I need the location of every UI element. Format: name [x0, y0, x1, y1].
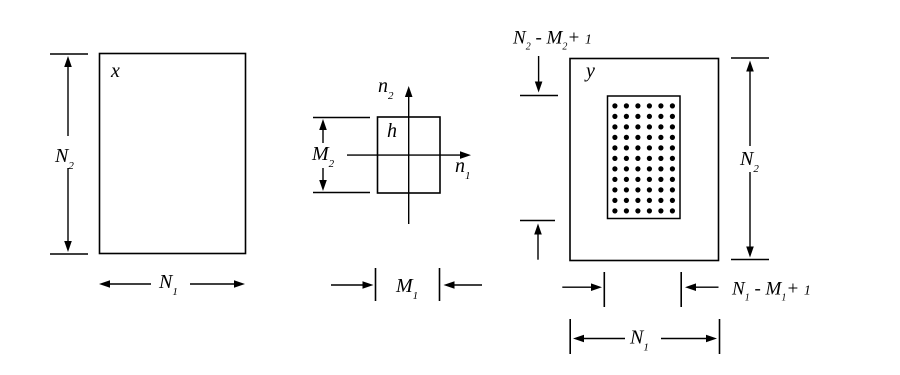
arrow M2 upper segment: [322, 127, 324, 143]
axis n2 vertical: [408, 94, 410, 224]
arrow M1 right (points left): [452, 284, 482, 286]
tick bottom-left N2: [50, 253, 88, 255]
tick bottom M2: [313, 192, 370, 194]
arrow N2 lower segment: [67, 168, 69, 244]
tick M1 left: [375, 268, 377, 301]
tick bottom-left inner: [520, 220, 555, 222]
axis n1 horizontal: [347, 154, 463, 156]
tick bottom N1 right: [719, 319, 721, 354]
tick top-right N2: [731, 57, 769, 59]
svg-text:h: h: [387, 120, 397, 142]
arrow pointing left at right tick: [696, 286, 719, 288]
svg-text:y: y: [584, 60, 595, 82]
tick bottom-right N2: [731, 259, 769, 261]
arrow N1 bottom left segment: [581, 338, 625, 340]
arrow N2 upper segment: [67, 64, 69, 136]
arrow N1 bottom right segment: [661, 338, 709, 340]
arrow N2 right lower segment: [749, 172, 751, 250]
dot grid: [612, 103, 675, 213]
arrow N1 bottom right segment: [190, 283, 237, 285]
square h: [378, 117, 441, 193]
tick M1 right: [439, 268, 441, 301]
svg-text:x: x: [110, 60, 120, 82]
rectangle x: [100, 54, 246, 254]
tick top-left inner: [520, 95, 558, 97]
arrow up to bottom of inner region: [537, 232, 539, 260]
tick below-rect right: [680, 272, 682, 307]
arrow N2 right upper segment: [749, 68, 751, 146]
arrow pointing right at left tick: [562, 286, 593, 288]
arrow M2 lower segment: [322, 168, 324, 183]
tick top M2: [313, 117, 370, 119]
rectangle y: [570, 59, 719, 261]
inner dotted rectangle: [608, 96, 681, 219]
tick top-left N2: [50, 53, 88, 55]
arrow M1 left (points right): [331, 284, 365, 286]
arrow down to top of inner region: [538, 56, 540, 84]
tick bottom N1 left: [569, 319, 571, 354]
tick below-rect left: [603, 272, 605, 307]
arrow N1 bottom left segment: [107, 283, 151, 285]
